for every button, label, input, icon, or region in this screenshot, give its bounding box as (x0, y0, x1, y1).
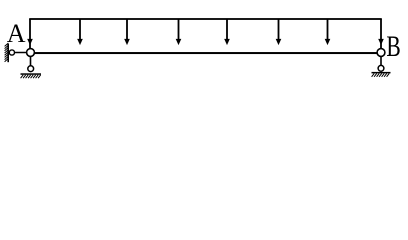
ground support below A (hatched) (21, 73, 42, 78)
ground support below B (hatched) (372, 72, 391, 77)
vertical link below A (30, 53, 32, 70)
load arrow 4 (x=178.5) (176, 19, 182, 45)
beam diagram: simply supported beam A-B with uniform distributed load (0, 0, 408, 96)
lower hinge circle below A (28, 66, 34, 72)
load arrow 6 (x=278.5) (276, 19, 282, 45)
distributed load top line (29, 18, 382, 20)
load arrow 5 (x=227) (224, 19, 230, 45)
load arrow 1 (left end, x=30) (27, 19, 33, 48)
horizontal link to wall at A (8, 52, 30, 54)
pin circle B (377, 49, 385, 57)
wall (left, hatched) (5, 43, 9, 62)
pin circle A (27, 49, 35, 57)
load arrow 2 (x=80) (77, 19, 83, 45)
svg-text:A: A (7, 19, 26, 48)
load arrow 8 (right end, x=381) (378, 19, 384, 48)
hinge circle at wall link (9, 50, 14, 55)
svg-text:B: B (386, 30, 400, 63)
beam AB (29, 52, 382, 54)
lower hinge circle below B (378, 65, 384, 71)
load arrow 7 (x=327.5) (325, 19, 331, 45)
vertical link below B (380, 53, 382, 69)
load arrow 3 (x=127) (124, 19, 130, 45)
